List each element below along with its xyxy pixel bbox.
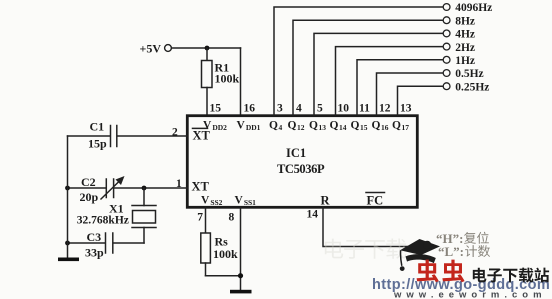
svg-text:7: 7 [197, 212, 203, 224]
svg-text:C3: C3 [87, 230, 102, 244]
wire pin 3 to 4096Hz [274, 7, 443, 115]
ground right [230, 290, 252, 294]
wire pin 12 to 0.5Hz [377, 73, 444, 115]
svg-text:8Hz: 8Hz [455, 15, 475, 27]
wire pin 4 to 8Hz [293, 20, 443, 115]
watermark site name black [473, 268, 549, 283]
svg-text:14: 14 [307, 209, 319, 221]
wire pin 8 down [240, 207, 242, 289]
node crystal junction [142, 186, 147, 191]
wire pin 10 to 2Hz [336, 47, 444, 115]
note L count [438, 244, 490, 259]
node ground junction [238, 273, 243, 278]
svg-text:16: 16 [244, 102, 256, 114]
pin label XT-bar (pin 2) [193, 128, 211, 142]
svg-text:8: 8 [229, 212, 235, 224]
crystal X1 32.768kHz [77, 188, 156, 243]
svg-text:4096Hz: 4096Hz [455, 2, 492, 14]
capacitor C3 [68, 230, 145, 259]
svg-text:32.768kHz: 32.768kHz [77, 214, 129, 226]
svg-text:33p: 33p [85, 245, 104, 259]
svg-text:0.5Hz: 0.5Hz [455, 68, 483, 80]
svg-text:XT: XT [192, 179, 210, 193]
watermark ghost text [325, 239, 406, 259]
svg-text:0.25Hz: 0.25Hz [455, 81, 489, 93]
svg-text:20p: 20p [80, 190, 99, 204]
svg-text:4: 4 [296, 102, 302, 114]
wire pin 7 to Rs [205, 207, 207, 233]
svg-text:4Hz: 4Hz [455, 29, 475, 41]
node supply junction [205, 46, 210, 51]
wire Rs to pin 8 node [206, 275, 241, 277]
svg-text:R: R [321, 194, 331, 208]
ground left [58, 258, 79, 262]
svg-text:15: 15 [210, 102, 222, 114]
terminal 8Hz [443, 15, 475, 27]
svg-text:10: 10 [338, 102, 350, 114]
note H reset [436, 231, 489, 246]
wire pin 5 to 4Hz [314, 33, 443, 115]
svg-text:www.eeworm.com: www.eeworm.com [393, 290, 547, 299]
svg-text:12: 12 [379, 102, 391, 114]
terminal 4096Hz [443, 2, 492, 14]
resistor R1 [202, 48, 240, 115]
terminal 0.25Hz [443, 81, 489, 93]
svg-text:X1: X1 [109, 201, 124, 215]
wire pin 16 to +5V [240, 48, 242, 115]
svg-text:2: 2 [172, 127, 178, 139]
svg-text:TC5036P: TC5036P [277, 162, 325, 176]
terminal 1Hz [443, 55, 475, 67]
power terminal +5V [140, 42, 172, 56]
pin label FC-bar [366, 193, 385, 208]
node left bus C3 junction [65, 241, 70, 246]
svg-text:15p: 15p [88, 136, 107, 150]
svg-text:1Hz: 1Hz [455, 55, 475, 67]
svg-text:XT: XT [193, 129, 211, 143]
svg-text:2Hz: 2Hz [455, 42, 475, 54]
wire pin 14 reset line [323, 207, 437, 246]
svg-text:C2: C2 [81, 175, 96, 189]
svg-text:“L”:: “L”: [438, 244, 464, 259]
terminal 2Hz [443, 42, 475, 54]
watermark chongchong red text [417, 260, 465, 283]
node left bus C2 junction [65, 186, 70, 191]
svg-text:11: 11 [359, 102, 370, 114]
watermark graduation cap [400, 239, 440, 271]
wire left bus [67, 136, 69, 258]
svg-text:13: 13 [400, 102, 412, 114]
wire pin 13 to 0.25Hz [398, 86, 444, 115]
svg-text:+5V: +5V [140, 42, 162, 56]
IC U1 TC5036P body [187, 116, 417, 208]
terminal 4Hz [443, 29, 475, 41]
capacitor C1 [68, 119, 188, 150]
svg-text:100k: 100k [215, 71, 240, 85]
wire +5V rail [172, 47, 241, 49]
svg-text:C1: C1 [90, 119, 105, 133]
svg-text:FC: FC [367, 194, 384, 208]
svg-text:IC1: IC1 [286, 146, 306, 160]
terminal 0.5Hz [443, 68, 483, 80]
svg-text:100k: 100k [213, 247, 238, 261]
capacitor C2 (trimmer) [68, 175, 188, 204]
svg-text:5: 5 [317, 102, 323, 114]
resistor Rs [201, 233, 238, 276]
wire pin 11 to 1Hz [357, 60, 443, 115]
svg-text:3: 3 [277, 102, 283, 114]
